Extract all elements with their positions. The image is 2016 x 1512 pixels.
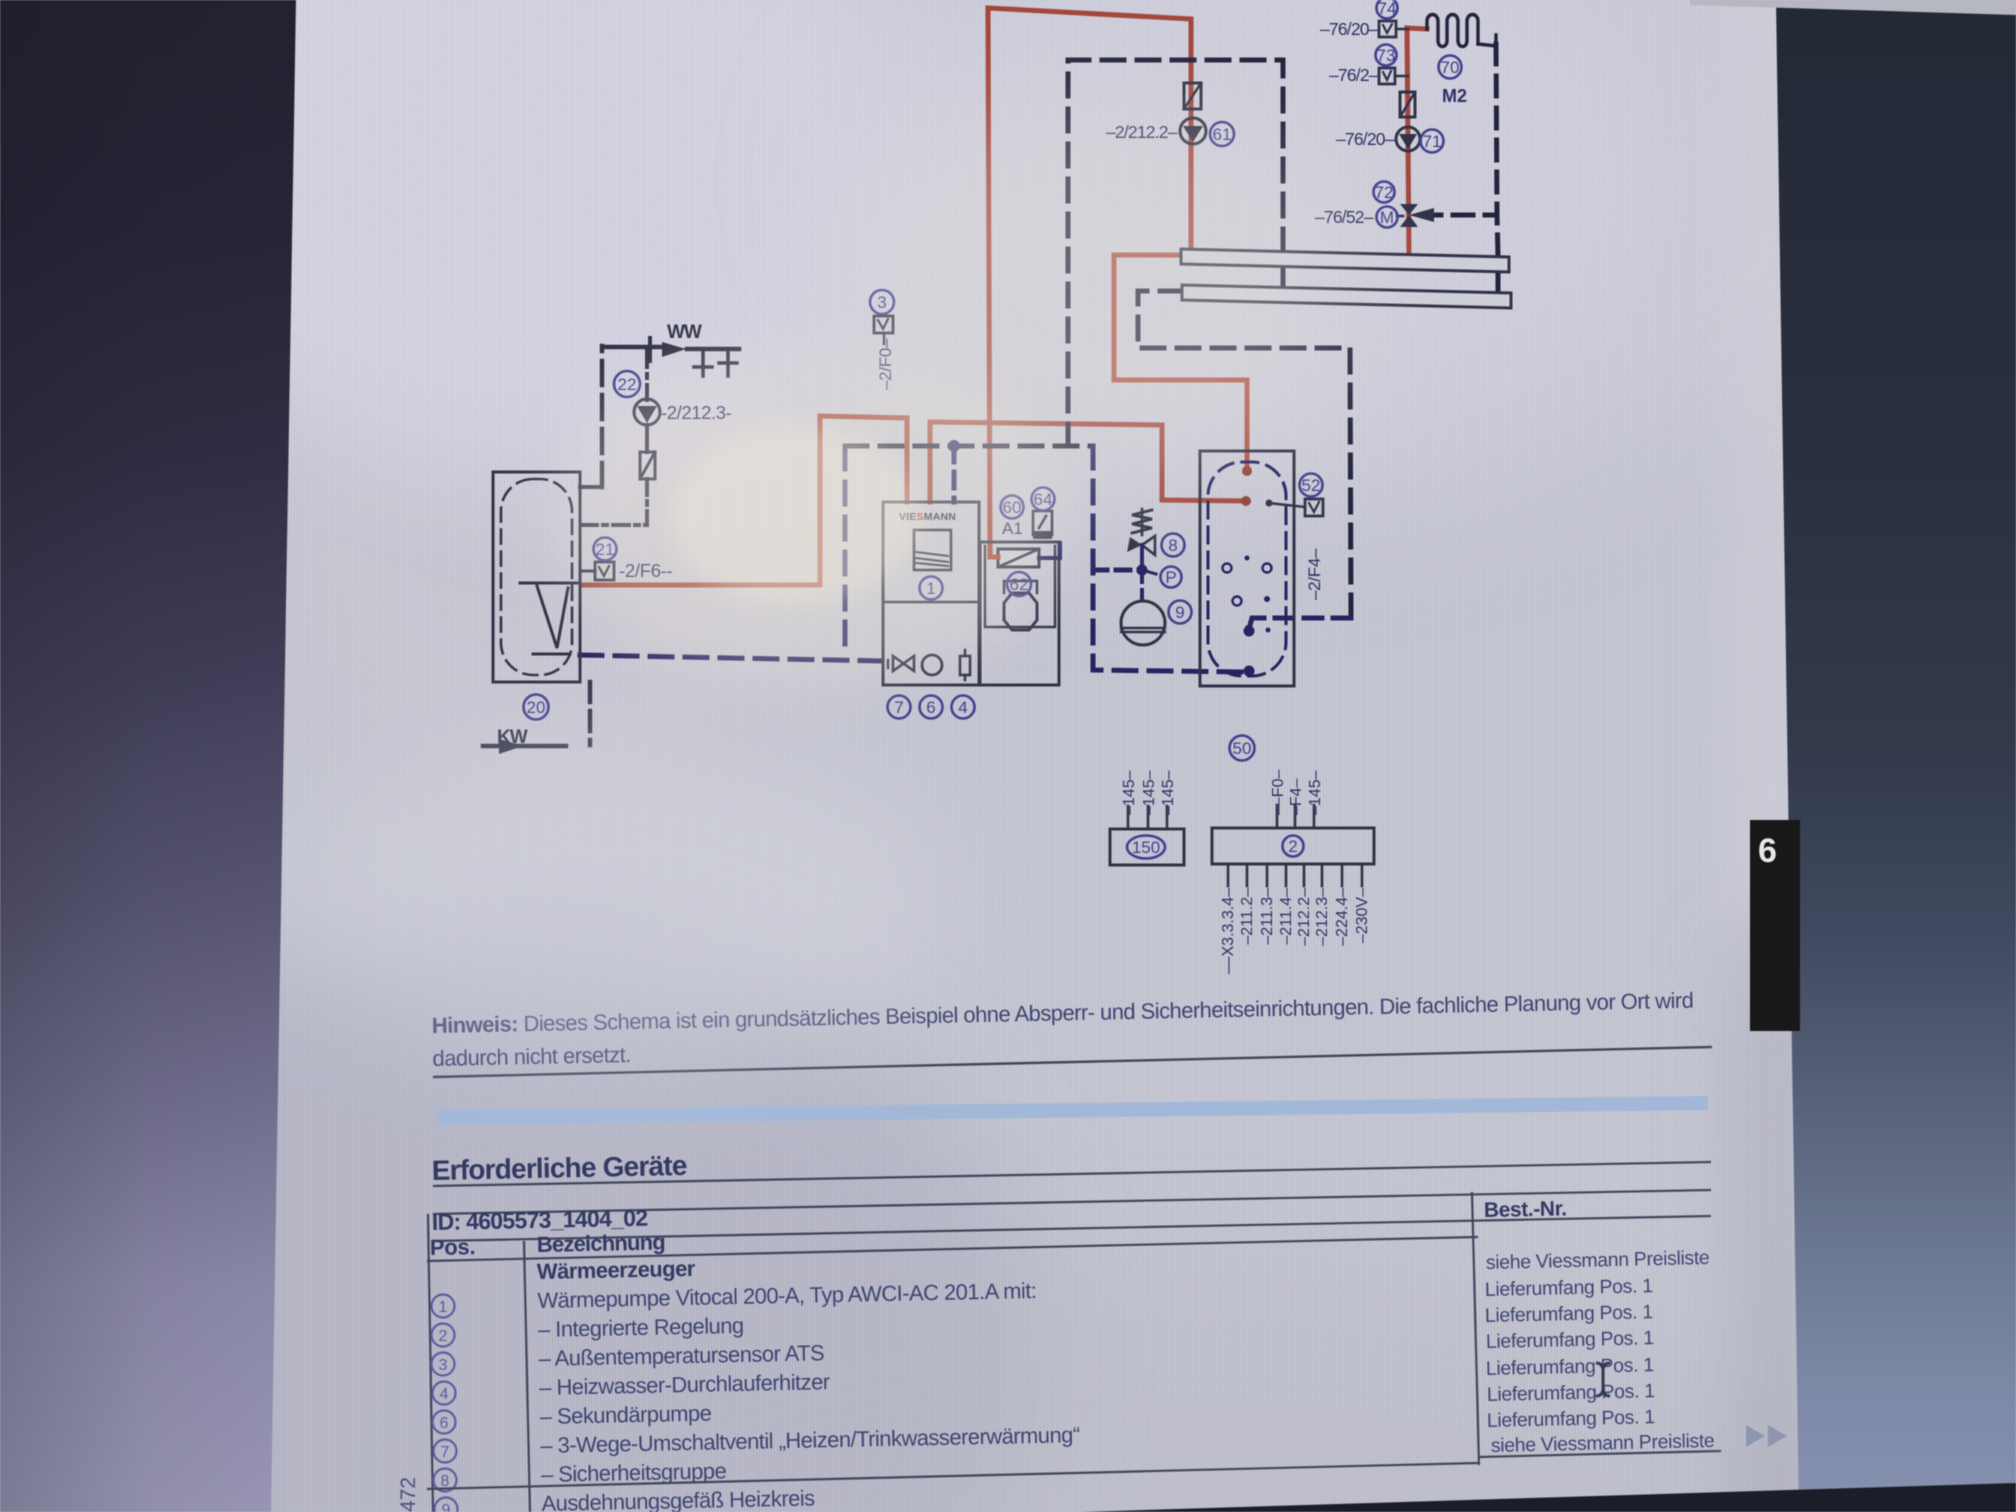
rule under heading: [433, 1162, 1711, 1186]
rule below ID row: [433, 1216, 1711, 1241]
ref 62: [1007, 572, 1031, 596]
KW inlet pipe: [588, 682, 593, 745]
ref M mixer: [1377, 207, 1398, 228]
bottom dark strip: [1080, 1483, 2016, 1512]
blue separator bar: [437, 1096, 1708, 1125]
ref 2: [1283, 836, 1304, 857]
ref 21: [594, 538, 617, 561]
heating manifold bar 1: [1181, 249, 1509, 272]
DHW circulation pump 2/212.3 line upper: [645, 349, 649, 400]
pos 7: [434, 1440, 457, 1463]
WW pipe line: [603, 345, 660, 350]
pos 2: [432, 1324, 455, 1347]
svg-text:6: 6: [1758, 832, 1777, 870]
box2 bottom pins: [1227, 864, 1230, 886]
pos 6: [433, 1411, 456, 1434]
ref 1: [920, 577, 943, 600]
circulation line to check valve: [645, 425, 649, 452]
best-nr column rows: [1485, 1247, 1715, 1457]
radiator circuit filter: [1400, 92, 1415, 117]
valve 62 stem: [1004, 581, 1037, 593]
label 2/F0 vertical: [876, 338, 895, 390]
safety valve 8 spring: [1132, 510, 1152, 533]
ref 71: [1421, 130, 1444, 153]
wire: radiator coil tail: [1478, 35, 1496, 46]
tonal shading: bottom-left darker: [0, 930, 1040, 1512]
WW riser tank stub: [580, 485, 602, 489]
Best.-Nr. header: [1484, 1197, 1567, 1222]
ref 8: [1162, 534, 1185, 557]
ref 50: [1230, 736, 1255, 761]
heat pump 1 outer box: [883, 502, 979, 685]
page number 472 rotated: [397, 1477, 420, 1512]
table row line above last row: [427, 1463, 1478, 1489]
node: buffer bottom port dot: [1244, 666, 1255, 677]
ref 9: [1169, 601, 1192, 624]
DHW tank 20 outer box: [493, 472, 580, 682]
tonal shading: bottom-middle slightly darker: [450, 1260, 1850, 1512]
wire: red riser heat pump heater to top and down to manifold bar1: [988, 8, 1191, 557]
ID row text: [432, 1205, 648, 1235]
sensor 52 square 2/F4: [1305, 499, 1323, 516]
ref 72: [1374, 182, 1395, 203]
pager double arrows: [1746, 1425, 1765, 1447]
ref 61: [1210, 122, 1234, 146]
mixer M circle link: [1397, 215, 1403, 218]
wire: red supply heat pump to buffer mid port: [930, 422, 1246, 502]
DHW tank 20 inner vessel dashed: [501, 479, 572, 675]
sensor 73 square: [1379, 68, 1395, 84]
table left border: [428, 1214, 433, 1512]
WW pipe mark 1: [701, 352, 705, 376]
ref 150: [1127, 836, 1165, 859]
wire: solid link between manifold bars left: [1281, 264, 1286, 291]
mixing valve 72: [1400, 204, 1418, 215]
expansion vessel 9: [1121, 601, 1165, 645]
connector box 2: [1212, 828, 1374, 864]
best-nr divider: [1472, 1192, 1479, 1465]
pump 61 body: [1180, 118, 1206, 144]
Bezeichnung header: [537, 1229, 666, 1257]
box2 top pins: [1276, 805, 1279, 828]
3-way valve 62 octagon: [1004, 593, 1037, 630]
DHW tank coil: [520, 582, 578, 585]
ref 6: [920, 696, 943, 719]
ref 60: [1001, 496, 1024, 519]
pos 1: [432, 1295, 455, 1318]
wire: navy dashed enclosure vertical right of heat pump: [1093, 446, 1243, 672]
connector box 150: [1110, 829, 1184, 865]
ref 22: [614, 371, 640, 397]
left bezel dark band: [0, 0, 296, 1512]
wire: dark dashed horizontal above heat pump: [845, 444, 1093, 449]
wire: black dashed manifold bar2 left loop: [1138, 291, 1351, 616]
ref 4: [952, 696, 975, 719]
node: buffer top port dot: [1242, 466, 1252, 476]
heat pump icon shut-off valve: [893, 656, 914, 671]
buffer sensor 52 line: [1269, 503, 1305, 507]
pump 61 filter: [1184, 83, 1201, 109]
bezeichnung rows: [537, 1248, 1082, 1512]
sensor 21 square 2/F6: [595, 562, 614, 580]
ref 52: [1300, 474, 1323, 497]
box150 pin labels 145: [1121, 770, 1138, 815]
ref P: [1161, 567, 1182, 588]
wire: navy dashed into buffer lower port: [1249, 618, 1351, 629]
heat pump icon cartridge: [960, 656, 970, 675]
page right edge shadow: [1726, 0, 1815, 990]
node: buffer mid-low port dot: [1244, 626, 1255, 637]
buffer sensor wells: [1223, 564, 1232, 573]
red stub into heater: [990, 555, 998, 560]
safety group line down: [1140, 545, 1144, 570]
Pos header: [430, 1234, 476, 1260]
node: junction dot above heat pump: [948, 440, 960, 452]
ref 73: [1376, 45, 1397, 66]
dashed down to expansion vessel: [1140, 570, 1144, 600]
KW flow arrow: [499, 739, 523, 754]
ref 3: [870, 290, 894, 314]
ref 74: [1377, 0, 1398, 19]
wire: dark dashed riser to manifold loop left: [1068, 60, 1283, 446]
rule above ID row: [433, 1190, 1711, 1214]
glare upper-left lavender: [90, 0, 950, 470]
light strip along very top right: [1690, 0, 2016, 15]
buffer tank 50 outer box: [1200, 451, 1294, 686]
wire: red manifold bar1 to buffer top port: [1114, 255, 1247, 468]
box150 pins: [1127, 806, 1130, 829]
radiator coil: [1427, 15, 1478, 47]
line to pressure gauge: [1142, 570, 1156, 574]
hinweis paragraph: [432, 988, 1695, 1071]
wire: black dashed radiator return down to bars: [1421, 215, 1498, 256]
heat pump icon pump circle: [922, 655, 942, 675]
heater to valve link: [1039, 543, 1060, 558]
pos 4: [433, 1382, 456, 1405]
sensor 21 line: [580, 570, 595, 573]
ref 70: [1439, 56, 1462, 79]
wire: red radiator circuit supply: [1407, 28, 1427, 258]
heading Erforderliche Geraete: [431, 1150, 687, 1186]
circulation pump 22 body: [634, 399, 660, 425]
heat pump divider: [883, 601, 979, 604]
wire: navy dashed stub into heat pump top: [952, 446, 957, 502]
pos 8: [434, 1469, 457, 1492]
wire: radiator return upper vertical: [1496, 44, 1497, 215]
buffer tank 50 vessel dashed: [1208, 462, 1286, 676]
safety valve 8 body: [1142, 536, 1155, 555]
node: buffer mid port dot: [1241, 496, 1251, 506]
wire: radiator return between bars: [1496, 271, 1501, 291]
WW pipe mark 2: [726, 351, 730, 376]
wire: navy dashed return tank to heat pump: [580, 655, 883, 661]
pos 3: [432, 1353, 455, 1376]
page texture: [285, 0, 1815, 1512]
WW flow arrow: [662, 342, 686, 357]
sensor 64 icon: [1033, 511, 1052, 535]
sensor 74 square: [1379, 21, 1396, 37]
heater element 60: [998, 549, 1039, 567]
circled reference numbers: [524, 0, 1462, 859]
ref 20: [524, 695, 549, 720]
box2 bottom pin labels: [1220, 888, 1237, 974]
chapter tab 6: [1750, 820, 1800, 1031]
ref 7: [888, 696, 911, 719]
heating manifold bar 2: [1182, 285, 1511, 308]
check valve on circulation line: [640, 452, 655, 479]
underline bottom right row: [1479, 1451, 1721, 1457]
rule under hinweis: [433, 1047, 1712, 1077]
text cursor I-beam: [1596, 1363, 1610, 1396]
pos-bezeichnung divider: [524, 1241, 530, 1512]
pump 71 body: [1396, 127, 1420, 151]
glare mid sheen: [830, 0, 1670, 440]
wire: navy dashed vertical drop at x845: [843, 447, 848, 656]
right dark band / desk: [1776, 0, 2016, 1512]
wire: red supply DHW tank coil to heat pump: [582, 416, 907, 585]
flash glare spot: [555, 345, 1065, 685]
ref 64: [1032, 488, 1055, 511]
heat pump control display: [914, 530, 951, 570]
sensor 3 square 2/F0: [874, 316, 893, 333]
warm cast left-center: [270, 310, 810, 810]
WW circulation riser dashed: [600, 346, 605, 487]
rule under column headers: [427, 1237, 1478, 1261]
pos circled numbers: [432, 1295, 458, 1512]
circulation line into tank: [580, 479, 647, 525]
wire: navy dashed branch to safety group: [1093, 568, 1140, 573]
heat pump module box: [980, 542, 1059, 685]
box2 top pin labels: [1270, 770, 1287, 815]
junction at pressure gauge: [1137, 565, 1148, 576]
pos 9: [435, 1498, 458, 1512]
heat pump inner module frame: [985, 546, 1055, 627]
label 2/F4 vertical: [1305, 548, 1324, 600]
